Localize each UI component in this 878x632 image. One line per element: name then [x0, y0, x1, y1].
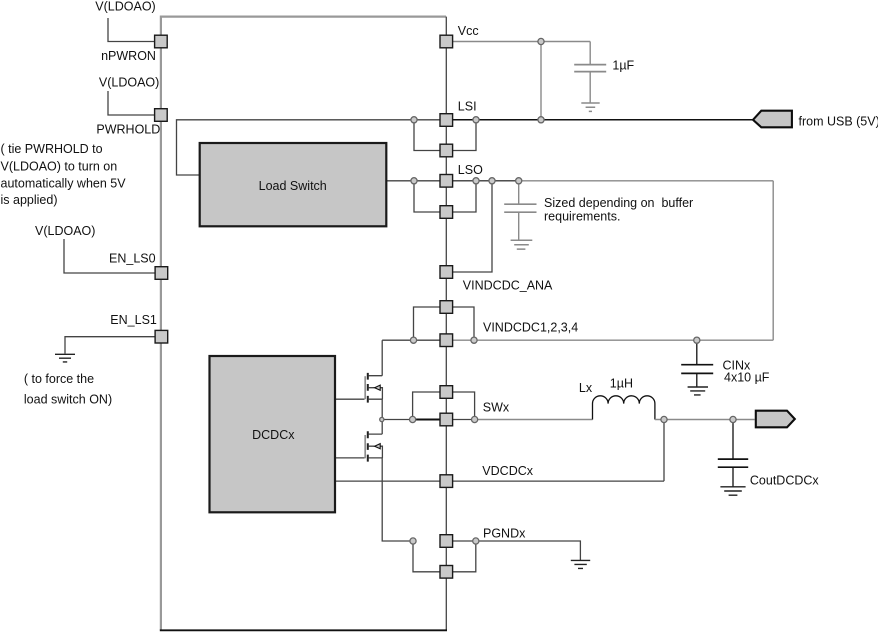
svg-text:V(LDOAO): V(LDOAO) — [99, 75, 159, 89]
svg-text:LSI: LSI — [458, 99, 477, 113]
svg-text:SWx: SWx — [483, 401, 510, 415]
svg-text:( to force the: ( to force the — [24, 372, 94, 386]
svg-text:VINDCDC1,2,3,4: VINDCDC1,2,3,4 — [483, 321, 578, 335]
svg-text:Sized depending on buffer: Sized depending on buffer — [544, 196, 693, 210]
svg-text:PGNDx: PGNDx — [483, 527, 526, 541]
svg-text:4x10 µF: 4x10 µF — [724, 371, 770, 385]
svg-text:PWRHOLD: PWRHOLD — [96, 122, 160, 136]
svg-text:automatically when 5V: automatically when 5V — [1, 176, 127, 190]
svg-text:1µF: 1µF — [612, 58, 634, 72]
svg-text:V(LDOAO) to turn on: V(LDOAO) to turn on — [1, 160, 118, 174]
svg-text:VINDCDC_ANA: VINDCDC_ANA — [463, 279, 553, 293]
svg-text:EN_LS1: EN_LS1 — [110, 313, 157, 327]
svg-text:from USB (5V): from USB (5V) — [799, 114, 878, 128]
svg-text:EN_LS0: EN_LS0 — [109, 251, 156, 265]
svg-text:is applied): is applied) — [1, 193, 58, 207]
svg-text:Vcc: Vcc — [458, 24, 479, 38]
svg-text:Lx: Lx — [579, 381, 593, 395]
svg-text:Load Switch: Load Switch — [259, 179, 327, 193]
svg-text:VDCDCx: VDCDCx — [482, 464, 533, 478]
svg-text:V(LDOAO): V(LDOAO) — [95, 0, 155, 13]
svg-text:1µH: 1µH — [610, 377, 633, 391]
svg-text:requirements.: requirements. — [544, 210, 620, 224]
svg-text:V(LDOAO): V(LDOAO) — [35, 224, 95, 238]
svg-text:DCDCx: DCDCx — [252, 428, 295, 442]
svg-text:LSO: LSO — [458, 163, 483, 177]
svg-text:load switch ON): load switch ON) — [24, 393, 112, 407]
svg-text:CoutDCDCx: CoutDCDCx — [750, 474, 820, 488]
svg-text:nPWRON: nPWRON — [101, 49, 156, 63]
svg-text:( tie PWRHOLD to: ( tie PWRHOLD to — [1, 142, 103, 156]
